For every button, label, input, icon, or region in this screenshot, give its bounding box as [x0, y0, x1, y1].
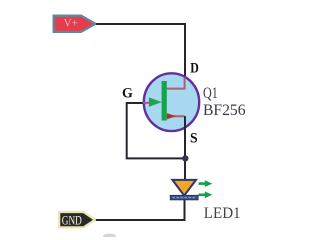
svg-text:GND: GND: [62, 214, 82, 228]
svg-text:LED1: LED1: [204, 205, 241, 222]
LED1 cathode bar: [170, 195, 198, 199]
node junction (source/gate feedback): [182, 155, 188, 161]
Q1 channel bar (green): [162, 81, 167, 121]
source wire overlay below lead: [184, 116, 186, 132]
svg-text:D: D: [190, 60, 199, 76]
svg-text:G: G: [122, 85, 133, 101]
svg-text:S: S: [190, 130, 198, 146]
Q1 source arrowhead (red): [167, 113, 176, 119]
svg-text:V+: V+: [64, 15, 79, 29]
Q1 drain lead (pink): [166, 78, 185, 89]
wire gate feedback loop G to source node: [127, 103, 186, 158]
LED light arrow 2: [199, 191, 213, 198]
power flag V+: [54, 16, 96, 32]
Q1 source lead (pink): [166, 115, 185, 117]
ground flag GND: [59, 212, 95, 227]
LED1 cathode bar dashes: [173, 197, 197, 199]
LED1 triangle (anode): [172, 180, 196, 196]
LED light arrow 1: [199, 180, 213, 187]
svg-text:Q1: Q1: [203, 85, 218, 102]
wire source to LED: [184, 116, 186, 180]
svg-text:BF256: BF256: [203, 102, 246, 119]
Q1 gate lead stub (pink): [143, 102, 152, 104]
wire V+ to drain (top rail): [96, 24, 185, 78]
transistor Q1 body circle: [144, 73, 199, 131]
faint artifact mark below GND: [103, 234, 116, 238]
Q1 gate arrow (green): [149, 97, 162, 106]
wire LED to ground rail: [96, 200, 185, 221]
